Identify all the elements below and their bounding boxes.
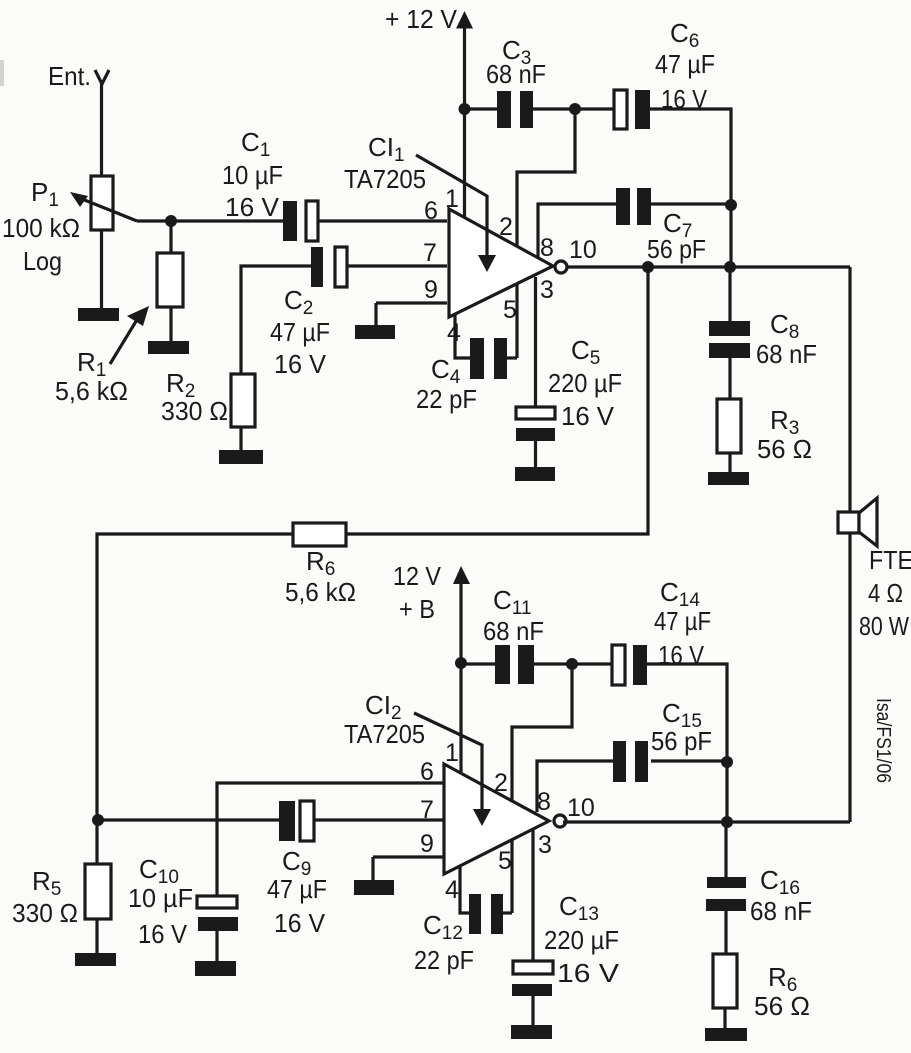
capacitor C16 xyxy=(706,877,746,911)
capacitor C15 xyxy=(613,741,648,782)
CI1 pointer arrow xyxy=(416,155,496,272)
capacitor C11 xyxy=(495,645,534,684)
svg-text:47 µF: 47 µF xyxy=(654,606,711,636)
svg-text:68 nF: 68 nF xyxy=(750,896,812,926)
wire C15 to node xyxy=(651,759,727,762)
capacitor C13 xyxy=(512,961,553,996)
svg-text:10: 10 xyxy=(567,794,595,822)
resistor R6 feedback body xyxy=(293,523,346,546)
wire C6 right corner down xyxy=(650,109,731,267)
svg-text:+ B: + B xyxy=(399,594,435,624)
svg-text:5,6 kΩ: 5,6 kΩ xyxy=(285,577,356,607)
wire C1 to pin 6 xyxy=(318,219,447,222)
resistor R6 body (output) xyxy=(713,954,737,1008)
ground R1 xyxy=(148,341,189,354)
wire C13 to ground xyxy=(531,996,534,1026)
svg-text:16 V: 16 V xyxy=(274,908,326,938)
svg-text:5,6 kΩ: 5,6 kΩ xyxy=(55,376,128,406)
capacitor C4 xyxy=(470,338,507,379)
supply2 arrow head xyxy=(453,566,470,584)
svg-text:16 V: 16 V xyxy=(557,958,620,988)
capacitor C9 xyxy=(279,801,314,841)
capacitor C12 xyxy=(469,894,503,934)
pin 3 wire to C13 xyxy=(531,829,534,961)
capacitor C5 xyxy=(516,407,555,441)
svg-text:12 V: 12 V xyxy=(393,561,442,591)
svg-text:68 nF: 68 nF xyxy=(486,59,546,89)
svg-text:5: 5 xyxy=(498,847,512,875)
svg-text:4: 4 xyxy=(445,876,459,904)
svg-text:9: 9 xyxy=(424,276,438,304)
speaker FTE cone xyxy=(859,498,877,546)
ground C10 xyxy=(195,961,236,976)
ground C5 xyxy=(515,467,555,481)
pin 9 wire xyxy=(376,301,447,304)
svg-text:4 Ω: 4 Ω xyxy=(868,578,903,608)
resistor R1 body xyxy=(157,253,183,307)
svg-text:330 Ω: 330 Ω xyxy=(161,396,228,426)
svg-text:56 Ω: 56 Ω xyxy=(754,991,810,1021)
capacitor C2 xyxy=(311,247,347,287)
bootstrap wire from node to C4 xyxy=(517,109,575,358)
wire node to C8 xyxy=(728,267,731,321)
pin 9 ground drop xyxy=(374,303,377,327)
pin 4 wire to C4 xyxy=(455,315,470,358)
ground R6 xyxy=(705,1028,747,1041)
svg-text:56 pF: 56 pF xyxy=(647,234,706,264)
pin 9 ground drop xyxy=(371,857,374,881)
pin 8 wire to C15 xyxy=(537,761,613,812)
svg-text:100 kΩ: 100 kΩ xyxy=(2,213,80,243)
wire C4 to bootstrap xyxy=(507,356,517,359)
svg-text:16 V: 16 V xyxy=(225,192,280,222)
ground pin 9 CI2 xyxy=(354,880,394,895)
svg-text:1: 1 xyxy=(445,739,459,767)
svg-text:Isa/FS1/06: Isa/FS1/06 xyxy=(872,698,894,783)
svg-text:8: 8 xyxy=(540,234,554,262)
svg-text:22 pF: 22 pF xyxy=(416,384,477,414)
svg-text:56 Ω: 56 Ω xyxy=(757,434,812,464)
svg-text:10 µF: 10 µF xyxy=(128,883,193,913)
svg-text:TA7205: TA7205 xyxy=(344,164,426,194)
wire C12 to bootstrap2 xyxy=(503,911,512,914)
supply2 wire down to pin 1 xyxy=(459,583,462,772)
speaker FTE box xyxy=(838,512,859,533)
svg-text:6: 6 xyxy=(424,197,438,225)
svg-text:9: 9 xyxy=(420,830,434,858)
wire C8 to R3 xyxy=(728,358,731,399)
CI2 pointer arrow xyxy=(414,713,491,826)
wire C2 left to R2 xyxy=(241,266,311,374)
capacitor C8 xyxy=(709,321,750,358)
wire C2 to pin 7 xyxy=(347,264,447,267)
output node dot CI2 xyxy=(721,816,733,828)
wire R6 to ground xyxy=(723,1008,726,1029)
ground pin 9 xyxy=(355,325,395,339)
wire dot to R1 xyxy=(169,221,172,253)
svg-text:16 V: 16 V xyxy=(274,349,327,379)
wire C11 to C14 xyxy=(534,662,612,665)
pin 8 wire to C7 xyxy=(538,204,616,257)
node dot C7 xyxy=(725,199,737,211)
capacitor C6 xyxy=(614,90,650,129)
wire P1 to ground xyxy=(100,230,103,309)
pin 7 wire left xyxy=(98,818,279,821)
node dot xyxy=(566,658,578,670)
R1 pointer arrow xyxy=(110,306,149,364)
node junction dot xyxy=(165,215,177,227)
svg-text:10: 10 xyxy=(569,236,597,264)
svg-text:330 Ω: 330 Ω xyxy=(12,898,78,928)
wire supply to C3 xyxy=(464,107,497,110)
svg-text:56 pF: 56 pF xyxy=(651,726,712,756)
svg-text:68 nF: 68 nF xyxy=(756,339,817,369)
resistor R2 body xyxy=(231,374,255,427)
ground R3 xyxy=(708,472,749,485)
svg-text:2: 2 xyxy=(499,213,513,241)
svg-text:FTE: FTE xyxy=(869,545,911,575)
wire C7 to vertical xyxy=(651,202,731,205)
svg-text:3: 3 xyxy=(540,276,554,304)
ground R2 xyxy=(219,450,263,464)
svg-text:TA7205: TA7205 xyxy=(344,719,425,749)
svg-text:22 pF: 22 pF xyxy=(414,945,474,975)
svg-text:16 V: 16 V xyxy=(138,919,188,949)
potentiometer P1 body xyxy=(91,176,113,230)
output node dot A xyxy=(642,261,654,273)
wire node to C16 xyxy=(724,822,727,878)
output pin 10 circle CI2 xyxy=(554,815,566,827)
pin 4 wire to C12 xyxy=(460,867,469,913)
pin 6 wire to C10 xyxy=(217,783,444,897)
resistor R3 body xyxy=(717,399,741,453)
supply wire down to pin 1 xyxy=(463,27,466,218)
svg-text:47 µF: 47 µF xyxy=(655,49,715,79)
svg-text:8: 8 xyxy=(537,788,551,816)
output wire CI2 xyxy=(563,820,850,823)
svg-text:Ent.: Ent. xyxy=(48,61,91,91)
node dot C15 xyxy=(721,756,733,768)
svg-text:2: 2 xyxy=(494,769,508,797)
wire C9 to pin 7 xyxy=(314,818,444,821)
capacitor C10 xyxy=(197,896,238,931)
ground P1 xyxy=(78,308,119,321)
supply2 junction dot xyxy=(455,657,467,669)
IC CI2 op-amp triangle xyxy=(444,764,549,874)
supply arrow head xyxy=(456,11,473,29)
capacitor C3 xyxy=(497,91,533,128)
node dot R5 xyxy=(92,814,104,826)
ground C13 xyxy=(511,1025,552,1039)
output pin 10 circle xyxy=(555,261,567,273)
node dot xyxy=(569,103,581,115)
wire C16 to R6 xyxy=(724,911,727,955)
output wire xyxy=(567,265,850,268)
wire wiper node to C1 xyxy=(137,219,283,222)
svg-text:220 µF: 220 µF xyxy=(548,368,622,398)
svg-text:80 W: 80 W xyxy=(859,611,909,641)
wire R5 to ground xyxy=(95,919,98,954)
wire C5 to ground xyxy=(534,441,537,469)
wire C14 right corner down xyxy=(647,664,727,822)
svg-text:Log: Log xyxy=(23,246,62,276)
svg-text:16 V: 16 V xyxy=(561,401,615,431)
speaker wire vertical xyxy=(848,267,851,822)
svg-text:220 µF: 220 µF xyxy=(544,925,619,955)
ground R5 xyxy=(75,953,116,966)
svg-text:5: 5 xyxy=(503,296,517,324)
svg-text:47 µF: 47 µF xyxy=(270,317,330,347)
pin 9 wire xyxy=(373,855,444,858)
svg-text:1: 1 xyxy=(445,185,459,213)
input terminal arrow xyxy=(95,70,109,84)
wire C10 to ground xyxy=(215,930,218,962)
supply junction dot xyxy=(459,103,471,115)
svg-text:10 µF: 10 µF xyxy=(222,160,283,190)
IC CI1 op-amp triangle xyxy=(449,209,553,317)
svg-text:3: 3 xyxy=(538,831,552,859)
pin 3 wire to C5 xyxy=(534,277,537,407)
wire input to P1 xyxy=(100,84,103,176)
scan edge mark left xyxy=(0,60,4,86)
svg-text:68 nF: 68 nF xyxy=(483,616,544,646)
output node dot B xyxy=(724,261,736,273)
resistor R5 body xyxy=(85,864,111,919)
wire R1 to ground xyxy=(169,307,172,342)
bootstrap2 wire xyxy=(512,664,572,913)
svg-text:47 µF: 47 µF xyxy=(267,874,327,904)
svg-text:7: 7 xyxy=(423,239,437,267)
wire C3 to C6 xyxy=(533,107,614,110)
capacitor C1 xyxy=(283,201,318,241)
capacitor C7 xyxy=(616,188,651,225)
wire R2 to ground xyxy=(239,427,242,451)
feedback wire from output node xyxy=(97,267,648,820)
P1 wiper arrow xyxy=(70,192,137,221)
capacitor C14 xyxy=(612,645,647,685)
svg-text:+ 12 V: + 12 V xyxy=(385,4,458,34)
wire supply2 to C11 xyxy=(461,662,495,665)
wire node to R5 xyxy=(95,820,98,864)
wire R3 to ground xyxy=(728,453,731,473)
